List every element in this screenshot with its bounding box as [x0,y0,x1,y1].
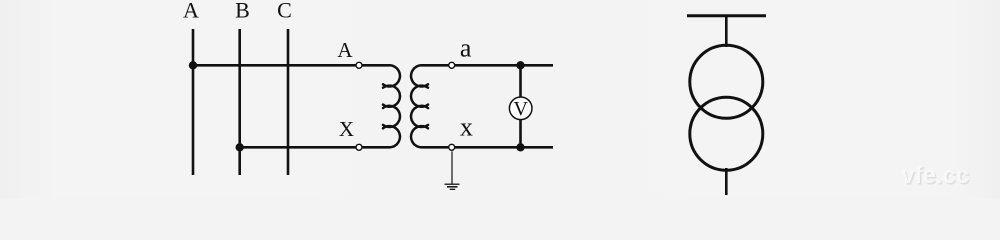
terminal A circle [356,62,362,68]
wire bus B to primary terminal X [240,146,390,149]
terminal a circle [449,62,455,68]
primary winding of PT [383,65,400,147]
svg-text:C: C [277,0,292,23]
ground [445,184,460,189]
transformer bottom lead [725,168,728,195]
wire secondary x [422,146,554,149]
junction a-wire [516,61,524,69]
svg-text:a: a [460,34,472,63]
bus A [192,29,195,175]
svg-text:x: x [460,113,473,142]
junction on bus B [236,143,244,151]
bus B [238,29,241,175]
transformer symbol: top bus bar [687,14,766,17]
wire bus A to primary terminal A [193,64,390,67]
transformer primary circle [690,45,763,118]
terminal x circle [449,144,455,150]
svg-text:A: A [337,38,353,62]
svg-text:V: V [513,98,528,120]
bus C [287,29,290,175]
secondary winding of PT [411,65,428,147]
junction on bus A [189,61,197,69]
svg-text:B: B [235,0,250,23]
terminal X circle [356,144,362,150]
svg-text:vfe.cc: vfe.cc [901,162,969,189]
voltmeter V [509,97,532,120]
wire secondary a [422,64,554,67]
svg-text:A: A [183,0,199,23]
svg-text:X: X [339,117,354,141]
voltmeter branch wire [519,65,522,147]
ground lead [451,151,453,184]
transformer secondary circle [690,97,763,170]
transformer top lead [725,16,728,47]
junction x-wire [516,143,524,151]
